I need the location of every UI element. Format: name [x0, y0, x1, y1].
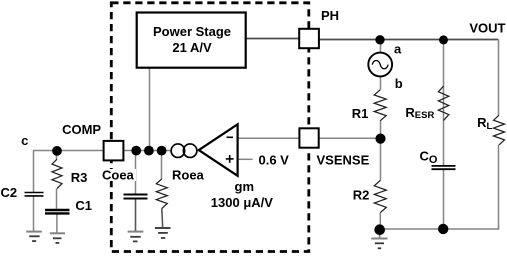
resistor RESR — [438, 86, 448, 120]
svg-text:Power Stage: Power Stage — [153, 24, 231, 39]
wire: top node to AC source a — [380, 40, 382, 54]
resistor R1 — [374, 90, 386, 121]
capacitor C2 — [25, 192, 44, 194]
wire: node c to COMP pad — [34, 151, 104, 193]
wire: node c to R3 — [56, 151, 58, 160]
svg-text:VOUT: VOUT — [469, 20, 505, 35]
plus sign (non-inverting input) — [226, 158, 234, 160]
wire: power stage output to PH pad — [246, 38, 299, 40]
capacitor C1 — [45, 209, 70, 211]
svg-text:a: a — [394, 42, 402, 57]
wire: COMP pad to gm input circles — [123, 150, 171, 152]
wire: C1 to ground — [56, 213, 58, 233]
svg-text:b: b — [395, 76, 403, 91]
svg-text:Coea: Coea — [102, 168, 135, 183]
wire: bottom rail — [380, 228, 500, 230]
ground under R2 — [371, 238, 387, 240]
svg-text:COMP: COMP — [62, 122, 101, 137]
ground under Roea — [155, 227, 171, 229]
wire: power stage down to COMP node — [149, 68, 151, 151]
wire: Coea to ground — [135, 199, 137, 232]
wire: AC source b to R1 — [380, 76, 382, 90]
svg-text:R1: R1 — [352, 106, 369, 121]
svg-text:R3: R3 — [71, 170, 88, 185]
wire: Roea to ground — [161, 209, 164, 229]
wire: COMP node down to Roea — [161, 151, 163, 179]
minus sign (inverting input) — [227, 136, 234, 138]
svg-text:c: c — [21, 133, 28, 148]
dashed converter boundary — [111, 3, 308, 252]
Power Stage block U1 — [137, 13, 246, 68]
wire: feedback node to R2 — [380, 139, 382, 181]
node dot VOUT/CO — [439, 35, 448, 44]
node dot CO bottom — [438, 224, 448, 234]
wire: CO to bottom rail — [443, 170, 445, 229]
gm amplifier input circles — [171, 144, 185, 158]
wire: R1 to feedback node — [380, 121, 382, 139]
wire: COMP node down to Coea — [135, 151, 137, 195]
capacitor Coea — [124, 194, 148, 196]
wire: gm inverting input to VSENSE pad — [238, 137, 300, 139]
svg-text:1300 μA/V: 1300 μA/V — [211, 195, 273, 210]
ground under C2 — [26, 231, 42, 233]
label Coea (with white halo over dashed border) — [101, 169, 136, 181]
node dot Coea junction — [131, 146, 141, 156]
svg-text:C1: C1 — [75, 198, 92, 213]
svg-text:C2: C2 — [1, 185, 18, 200]
pad COMP — [104, 141, 124, 161]
node dot bottom ground — [374, 224, 385, 235]
resistor Roea — [156, 179, 167, 209]
svg-text:R2: R2 — [353, 187, 370, 202]
op-amp gm error amplifier — [199, 124, 238, 176]
wire: R2 ground stub — [379, 230, 381, 239]
resistor RL — [494, 115, 505, 145]
svg-text:0.6 V: 0.6 V — [259, 152, 290, 167]
svg-text:gm: gm — [235, 179, 255, 194]
wire: R3 to C1 — [56, 189, 58, 211]
wire: right rail down to RL — [498, 40, 500, 116]
wire: R2 to ground node — [379, 213, 381, 230]
ground under Coea — [128, 231, 144, 233]
node dot Roea junction — [157, 146, 167, 156]
svg-text:VSENSE: VSENSE — [317, 152, 370, 167]
ground under C1 — [50, 232, 65, 234]
node dot VSENSE feedback — [375, 134, 385, 144]
svg-text:21 A/V: 21 A/V — [172, 40, 212, 55]
svg-text:PH: PH — [321, 8, 339, 23]
resistor R2 — [374, 180, 386, 212]
wire: VSENSE pad to feedback node — [319, 137, 381, 139]
node dot c/R3 junction — [52, 146, 62, 156]
resistor R3 — [52, 159, 62, 188]
pad PH — [299, 29, 319, 48]
node dot power stage junction — [144, 146, 154, 156]
wire: PH to VOUT rail (top wire) — [319, 39, 498, 41]
wire: RL to bottom rail — [498, 145, 500, 229]
pad VSENSE — [299, 128, 318, 147]
wire: C2 to ground — [33, 196, 35, 232]
capacitor CO — [432, 165, 456, 167]
AC source a-b — [368, 53, 392, 77]
wire: VOUT node down to CO — [443, 40, 445, 166]
wire: gm non-inverting input stub (0.6 V ref) — [238, 158, 253, 160]
svg-text:Roea: Roea — [172, 168, 205, 183]
node dot top AC source — [375, 35, 384, 44]
